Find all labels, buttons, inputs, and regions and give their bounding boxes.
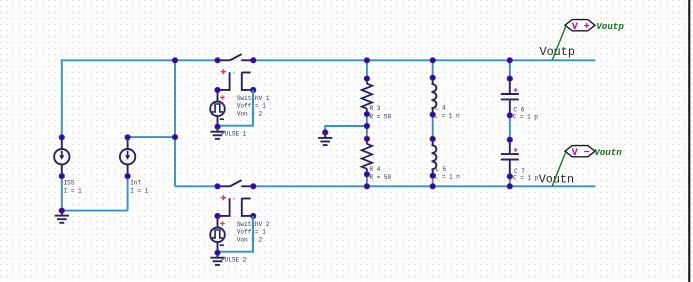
node: top rail / middle bus	[172, 58, 177, 63]
switch SW1 control brackets	[218, 72, 254, 90]
svg-text:L 5: L 5	[435, 166, 446, 173]
svg-text:V +: V +	[572, 22, 590, 33]
probe V+ marker	[565, 20, 595, 31]
inductor L4	[432, 78, 437, 115]
node: top rail / L column	[430, 58, 435, 63]
probe V+ pointer	[552, 27, 565, 60]
ground below pulse source V2	[210, 253, 224, 265]
svg-text:L 4: L 4	[435, 105, 446, 112]
node: bottom-left ground junction	[59, 208, 64, 213]
node: C6 bottom pin	[507, 113, 512, 118]
current source InT body	[120, 137, 135, 176]
node: R3 top pin	[364, 76, 369, 81]
wire: R column bottom	[366, 174, 368, 186]
wire: mid-node ground spur	[325, 126, 367, 132]
switch SW2 control brackets	[218, 198, 254, 216]
wire: C column middle	[509, 115, 511, 139]
wire: ISS bottom lead down	[61, 176, 63, 211]
wire: C column bottom	[509, 176, 511, 186]
node: InT top pin	[125, 135, 130, 140]
resistor R3	[362, 79, 372, 115]
node: L4 bottom pin	[430, 112, 435, 117]
svg-text:C = 1 p: C = 1 p	[513, 113, 539, 120]
svg-text:PULSE 2: PULSE 2	[221, 257, 247, 264]
capacitor C6	[501, 79, 519, 116]
wire: C column top	[509, 60, 511, 78]
node: middle bus / InT tap	[172, 134, 177, 139]
wire: lower rail from SW2 to right end (node Voutn)	[253, 185, 595, 187]
node: SW1 control plus pin	[215, 87, 220, 92]
pulse source V1 waveform glyph	[212, 104, 223, 112]
node: ISS bottom pin	[59, 173, 64, 178]
node: SW1 right terminal	[251, 58, 256, 63]
svg-text:C = 1 p: C = 1 p	[513, 174, 539, 181]
svg-text:Voutp: Voutp	[596, 21, 624, 32]
wire: SW2 control return	[218, 216, 253, 252]
capacitor C6 plus	[514, 88, 518, 92]
svg-text:R 3: R 3	[369, 105, 380, 112]
schematic page right border	[688, 0, 690, 282]
probe V- marker	[565, 146, 595, 157]
svg-text:I = 1: I = 1	[64, 188, 82, 195]
node: lower rail / L column	[430, 184, 435, 189]
wire: bottom-left horizontal to ground	[62, 210, 128, 212]
node: L5 bottom pin	[430, 173, 435, 178]
wire: SW1 control return (over labels)	[252, 90, 254, 126]
current source ISS arrow	[61, 151, 63, 157]
pulse source V1 minus	[220, 118, 224, 120]
node: C7 top pin	[507, 137, 512, 142]
switch SW1 blade and leads	[218, 54, 254, 60]
switch SW2 tiny marker	[233, 198, 235, 200]
svg-text:Von = 2: Von = 2	[237, 111, 263, 118]
pulse source V1 plus	[220, 95, 224, 99]
node: R4 bottom pin	[364, 172, 369, 177]
switch SW1 polarity plus	[221, 69, 226, 74]
ground at R mid-node	[318, 132, 332, 145]
svg-text:PULSE 1: PULSE 1	[221, 131, 247, 138]
ground at bottom-left	[55, 211, 69, 223]
wire: L column middle	[432, 115, 434, 139]
wire: InT top to middle bus	[128, 136, 175, 138]
svg-text:R 4: R 4	[369, 166, 380, 173]
svg-text:V −: V −	[572, 148, 590, 159]
node: mid ground pin	[323, 130, 328, 135]
resistor R4	[362, 139, 372, 175]
node: R4 top pin	[364, 136, 369, 141]
ground below pulse source V1	[210, 127, 224, 139]
node: lower rail / C column	[507, 184, 512, 189]
wire: lower rail from middle bus to SW2	[175, 185, 218, 187]
node: top rail / R column	[364, 58, 369, 63]
node: SW2 left terminal	[215, 184, 220, 189]
node: L4 top pin	[430, 75, 435, 80]
svg-text:Voutn: Voutn	[594, 147, 622, 158]
wire: L column top	[432, 60, 434, 77]
svg-text:L = 1 n: L = 1 n	[435, 173, 461, 180]
wire: L column bottom	[432, 176, 434, 187]
node: SW1 left terminal	[215, 58, 220, 63]
node: R3 bottom pin	[364, 111, 369, 116]
pulse source V2 minus	[220, 244, 224, 246]
probe V- pointer	[552, 153, 565, 186]
node: SW2 right terminal	[251, 184, 256, 189]
inductor L5	[432, 139, 437, 176]
node: SW2 control minus pin	[251, 213, 256, 218]
node: lower rail / R column	[364, 184, 369, 189]
svg-text:L = 1 n: L = 1 n	[434, 113, 460, 120]
svg-text:Von = 2: Von = 2	[237, 237, 263, 244]
pulse source V2 body	[210, 216, 225, 253]
svg-text:InT: InT	[130, 179, 141, 186]
capacitor C7	[501, 140, 519, 177]
svg-text:Voff = 1: Voff = 1	[237, 229, 266, 236]
current source ISS body	[54, 137, 69, 176]
node: R mid junction	[364, 123, 369, 128]
wire: top rail from SW1 to right end (node Voutp)	[253, 59, 595, 61]
node: L5 top pin	[430, 136, 435, 141]
capacitor C7 plus	[514, 148, 518, 152]
switch SW1 tiny marker	[233, 72, 235, 74]
node: pulse V1 bottom	[215, 124, 220, 129]
wire: left vertical + top rail to switch SW1	[62, 60, 218, 137]
svg-text:I = 1: I = 1	[130, 188, 148, 195]
pulse source V2 plus	[220, 221, 224, 225]
wire: InT bottom lead down	[127, 176, 129, 211]
pulse source V1 body	[210, 90, 225, 127]
node: top rail / C column	[507, 58, 512, 63]
current source InT arrow	[127, 151, 129, 157]
wire: R column top	[366, 60, 368, 78]
node: SW1 control minus pin	[251, 87, 256, 92]
pulse source V2 waveform glyph	[212, 230, 223, 238]
svg-text:ISS: ISS	[64, 179, 75, 186]
wire: SW1 control return	[218, 90, 253, 126]
svg-text:R = 50: R = 50	[369, 113, 391, 120]
switch SW2 blade and leads	[218, 180, 254, 186]
svg-text:R = 50: R = 50	[369, 174, 391, 181]
node: ISS top pin	[59, 135, 64, 140]
wire: SW2 control return (over labels)	[252, 216, 254, 252]
wire: middle vertical bus x=175	[174, 60, 176, 186]
node: InT bottom pin	[125, 173, 130, 178]
node: SW2 control plus pin	[215, 213, 220, 218]
node: C6 top pin	[507, 76, 512, 81]
switch SW2 polarity plus	[221, 195, 226, 200]
node: pulse V2 bottom	[215, 250, 220, 255]
wire: R column middle	[366, 114, 368, 139]
node: C7 bottom pin	[507, 174, 512, 179]
svg-text:Voff = 1: Voff = 1	[237, 103, 266, 110]
